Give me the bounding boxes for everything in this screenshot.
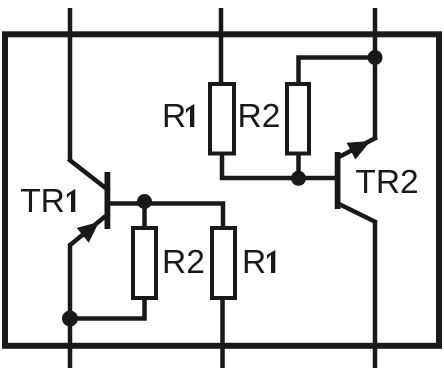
wire: top-left pin to TR1 collector — [68, 8, 73, 161]
svg-text:R: R — [162, 98, 186, 135]
wire: R2 (top) bottom lead to base node — [296, 153, 301, 178]
node: TR1 emitter / bottom-left pin junction — [62, 311, 78, 327]
wire: base node down to R2 (bottom) — [142, 203, 147, 230]
svg-text:R: R — [242, 244, 266, 281]
wire: TR1 base to R1 (bottom) top — [110, 204, 223, 231]
transistor TR1 — [70, 160, 110, 244]
wire: top-right pin to TR2 emitter — [373, 8, 378, 139]
svg-text:R2: R2 — [162, 244, 205, 281]
svg-text:TR2: TR2 — [355, 164, 418, 201]
node: TR1 base junction — [137, 194, 152, 209]
wire: top-middle pin to R1 (top) — [219, 8, 224, 86]
wire: R2 (bottom) to TR1 emitter node — [70, 296, 145, 319]
wire: R2 (top) to top-right junction — [299, 58, 376, 87]
wire: TR1 emitter to bottom-left pin — [68, 244, 73, 368]
wire: R1 (bottom) to bottom-middle pin — [220, 296, 225, 368]
TR2 emitter lead (to top rail) — [338, 138, 375, 157]
svg-text:TR: TR — [20, 183, 65, 220]
package outline — [5, 34, 439, 346]
wire: TR2 collector to bottom-right pin — [373, 221, 378, 369]
TR1 emitter arrow — [77, 222, 99, 243]
resistor R2 (bottom) — [133, 228, 156, 298]
TR1 emitter lead — [71, 215, 108, 245]
TR2 base bar — [335, 152, 341, 209]
TR2 emitter arrow — [347, 141, 371, 160]
TR1 collector lead (from top-left wire) — [70, 160, 108, 189]
TR1 base bar — [105, 172, 111, 229]
resistor R1 (bottom) — [212, 228, 235, 298]
TR2 collector lead — [338, 204, 375, 222]
svg-text:R2: R2 — [238, 98, 281, 135]
resistor R1 (top) — [210, 84, 234, 154]
node: TR2 emitter / top-right pin junction — [368, 50, 383, 65]
wire: base node to TR2 base — [299, 176, 336, 181]
resistor R2 (top) — [287, 84, 309, 154]
wire: R1 (top) bottom to TR2 base node — [222, 153, 299, 178]
transistor TR2 — [335, 138, 375, 221]
node: TR2 base junction — [291, 171, 306, 186]
